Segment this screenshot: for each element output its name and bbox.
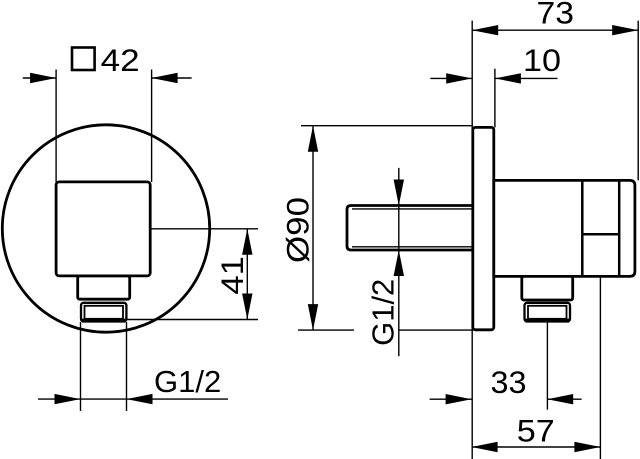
svg-text:41: 41 (214, 256, 250, 295)
svg-text:Ø90: Ø90 (280, 197, 316, 263)
svg-text:73: 73 (537, 0, 575, 30)
svg-text:33: 33 (491, 364, 527, 400)
svg-text:G1/2: G1/2 (154, 364, 221, 399)
svg-text:42: 42 (101, 42, 140, 78)
svg-text:57: 57 (517, 413, 555, 449)
svg-text:G1/2: G1/2 (366, 279, 401, 346)
svg-text:10: 10 (523, 42, 561, 78)
